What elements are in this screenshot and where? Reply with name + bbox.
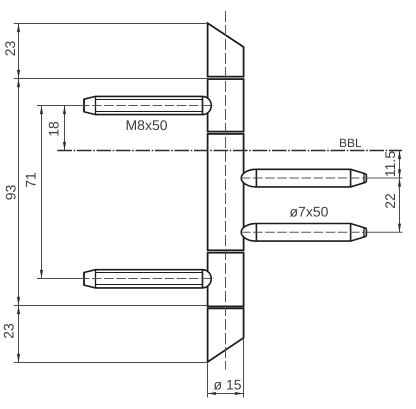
extension line bottom (y=362) [14, 362, 208, 364]
pin 7x50 upper right (pin C) [241, 169, 366, 187]
svg-text:M8x50: M8x50 [126, 117, 168, 133]
svg-text:BBL: BBL [339, 136, 362, 150]
svg-text:23: 23 [1, 323, 17, 339]
arrow up at y=305.9 [17, 306, 20, 315]
arrow down at y=305.9 [17, 297, 20, 306]
extension line phi15 right [243, 339, 245, 398]
svg-text:71: 71 [23, 172, 39, 188]
svg-text:11.5: 11.5 [382, 151, 398, 177]
threaded pin M8 top (pin A) [84, 96, 211, 114]
arrow down at y=362 [17, 354, 20, 363]
svg-text:ø7x50: ø7x50 [290, 204, 329, 220]
dimension line phi15 [208, 393, 244, 395]
arrow down at y=78.9 [17, 70, 20, 79]
centerline pin D [241, 231, 362, 233]
svg-text:23: 23 [2, 41, 18, 57]
dimension line 71 [41, 106, 43, 279]
svg-text:22: 22 [382, 193, 398, 209]
centerline hinge axis [225, 11, 227, 370]
centerline pin A [80, 105, 214, 107]
extension line at 93/23 boundary [14, 305, 208, 307]
arrow left phi15 [208, 392, 217, 395]
extension line pin A center [37, 105, 80, 107]
hinge body top cap segment [208, 23, 244, 77]
threaded pin M8 bottom (pin B) [84, 270, 211, 288]
arrow up 18 [63, 106, 66, 115]
dimension chain line left (23 / 93 / 23) [18, 24, 20, 363]
hinge knuckle segment 4 [208, 253, 244, 307]
arrow down at pin C center [398, 169, 401, 178]
BBL datum line [58, 150, 403, 152]
centerline pin C [241, 177, 362, 179]
extension line top (y=23) [14, 23, 208, 25]
extension line pin B center [37, 278, 80, 280]
dimension line right (11.5 / 22) [399, 151, 401, 233]
arrow up at BBL [398, 151, 401, 160]
centerline pin B [80, 278, 214, 280]
svg-text:18: 18 [46, 121, 62, 137]
arrow up at pin C center [398, 178, 401, 187]
svg-text:93: 93 [3, 185, 19, 201]
pin 7x50 lower right (pin D) [241, 224, 366, 242]
hinge knuckle segment 3 [208, 134, 244, 250]
arrow down at pin D center [398, 224, 401, 233]
svg-text:ø 15: ø 15 [214, 377, 242, 393]
hinge knuckle segment 2 [208, 79, 244, 132]
extension line at 23/93 boundary [14, 78, 208, 80]
arrow up at y=23.1 [17, 24, 20, 33]
arrow down 18 [63, 142, 66, 151]
arrow up 71 [40, 106, 43, 115]
dimension line 18 [64, 106, 66, 151]
arrow right phi15 [235, 392, 244, 395]
arrow down 71 [40, 270, 43, 279]
extension line phi15 left [207, 364, 209, 398]
hinge body bottom cap segment [208, 308, 244, 362]
arrow up at y=78.9 [17, 79, 20, 88]
